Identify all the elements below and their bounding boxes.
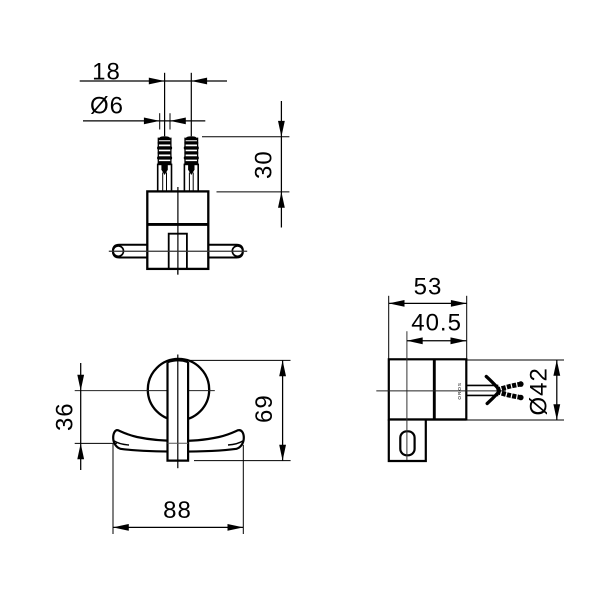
top view vertical centerline — [177, 187, 179, 275]
dimension 88 arrows — [113, 524, 129, 531]
svg-text:69: 69 — [251, 394, 278, 423]
svg-text:53: 53 — [414, 274, 443, 301]
svg-text:36: 36 — [52, 402, 79, 431]
dimension 36 arrows — [77, 375, 84, 391]
dimension O6 extension lines — [159, 113, 161, 129]
peg left knob circle — [113, 246, 123, 256]
dimension 88 left extension — [112, 444, 114, 534]
dimension O42 arrows — [553, 360, 560, 376]
dimension O6 line — [83, 120, 205, 122]
side view mounting tab — [389, 420, 426, 462]
screw right shank hidden lines — [188, 173, 190, 192]
side view main body — [389, 359, 467, 419]
top view body — [147, 191, 208, 269]
hook tube bottom edge — [466, 394, 498, 396]
peg left (hook tip, top view) — [113, 245, 147, 258]
dimension 18 arrows — [149, 78, 165, 85]
svg-text:Ø42: Ø42 — [526, 367, 553, 415]
screw centerline left — [164, 73, 166, 198]
dimension 53 arrows — [389, 300, 405, 307]
dimension 40.5 line — [407, 340, 466, 342]
dimension 30 line — [280, 101, 282, 228]
dimension 69 arrows — [279, 360, 286, 376]
screw centerline right — [190, 73, 192, 198]
peg right (hook tip, top view) — [208, 245, 243, 258]
svg-text:OROS: OROS — [457, 382, 462, 400]
svg-text:Ø6: Ø6 — [90, 92, 124, 119]
dimension 36 line — [80, 363, 82, 470]
top view vertical centerline lower part — [177, 191, 179, 274]
hook X upper-left stroke — [486, 377, 497, 388]
screw right tip — [188, 164, 194, 175]
dimension 88 right extension — [242, 445, 244, 534]
screw right sleeve — [184, 164, 198, 191]
dimension 53 left extension — [388, 296, 390, 360]
screw left tip — [161, 164, 167, 175]
dimension O42 line — [556, 360, 558, 420]
front view post — [168, 362, 189, 461]
screw left shank hidden lines — [162, 173, 164, 192]
dimension O42 bottom extension — [467, 419, 564, 421]
dimension 69 top extension — [183, 359, 291, 361]
top view inner rect (post) — [169, 234, 187, 269]
dimension 88 line — [113, 526, 243, 528]
dimension 30 extension lines — [202, 136, 289, 138]
dimension O6 arrows — [144, 118, 160, 125]
dimension 53 right extension — [466, 296, 468, 360]
hidden arm line through post — [168, 442, 189, 444]
dimension 40.5 arrows — [407, 337, 423, 344]
screw left sleeve — [158, 164, 172, 191]
top view body thick mid line — [147, 223, 208, 226]
side view thick divider — [433, 359, 436, 419]
dimension 36 lower extension — [75, 442, 117, 444]
hook arm right crease — [228, 441, 243, 445]
svg-text:88: 88 — [163, 497, 192, 524]
side view slot centerline — [406, 331, 408, 460]
front view vertical centerline — [177, 355, 179, 469]
peg axis centerline — [109, 250, 247, 252]
svg-text:40.5: 40.5 — [411, 310, 462, 337]
front view horizontal centerline — [75, 390, 215, 392]
dimension 30 arrows — [278, 121, 285, 137]
screw left threads — [157, 136, 172, 164]
dimension 53 line — [389, 302, 467, 304]
screw right threads — [184, 136, 199, 164]
hook X lower-left stroke — [487, 393, 497, 403]
front view hook arm — [113, 430, 244, 451]
svg-text:18: 18 — [92, 59, 121, 86]
side view horizontal centerline — [376, 390, 506, 392]
dimension 69 bottom extension — [194, 460, 291, 462]
svg-text:30: 30 — [251, 150, 278, 179]
dimension 18 line — [80, 80, 227, 82]
front view circle top arc over post — [168, 360, 189, 362]
hook X upper-right ribbed arm — [497, 384, 520, 390]
dimension O42 top extension — [467, 359, 564, 361]
peg right knob circle — [232, 246, 242, 256]
hook tube top edge — [466, 384, 498, 386]
side view slot — [400, 431, 414, 455]
hook arm left crease — [114, 441, 129, 445]
dimension 69 line — [282, 360, 284, 460]
front view flange circle — [148, 359, 209, 420]
hook X lower-right ribbed arm — [497, 392, 520, 398]
side view body bottom line over tab — [389, 418, 467, 420]
